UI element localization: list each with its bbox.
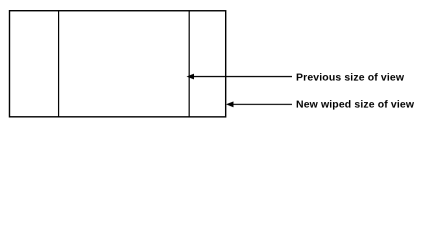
inner vertical line: previous size boundary (188, 10, 190, 118)
arrowhead at new wiped size edge (226, 101, 234, 107)
svg-text:Previous size of view: Previous size of view (296, 72, 405, 84)
inner vertical divider line (left) (58, 10, 60, 117)
svg-text:New wiped size of view: New wiped size of view (296, 99, 415, 111)
outer rectangle (view outline) (9, 11, 225, 117)
arrowhead at previous size boundary (186, 74, 194, 80)
leader line to previous size boundary (190, 76, 292, 78)
leader line to new wiped size edge (228, 103, 292, 105)
